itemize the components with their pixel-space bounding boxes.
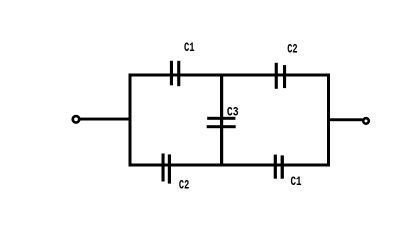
- capacitor C1 (bottom right): right plate: [281, 155, 284, 178]
- wire middle branch (C3 branch): [220, 74, 223, 167]
- svg-text:C3: C3: [227, 106, 239, 120]
- terminal left (input port): [73, 116, 80, 123]
- capacitor C2 (bottom left): right plate: [168, 154, 171, 183]
- capacitor C3 (middle): bottom plate: [207, 125, 236, 128]
- wire left terminal lead: [79, 118, 130, 121]
- wire right edge (output node): [327, 74, 330, 167]
- svg-text:C2: C2: [287, 43, 297, 57]
- capacitor C1 (bottom right): left plate: [274, 155, 277, 179]
- capacitor C1 (top left): left plate: [170, 61, 173, 86]
- wire bottom (node between C2 and C1 bottom): [129, 164, 331, 167]
- wire left edge (input node): [129, 74, 132, 167]
- capacitor C2 (top right): right plate: [283, 65, 286, 88]
- capacitor C2 (bottom left): left plate: [162, 154, 165, 182]
- svg-text:C1: C1: [184, 41, 195, 55]
- svg-text:C1: C1: [291, 175, 302, 189]
- capacitor C1 (top left): right plate: [177, 61, 180, 86]
- wire right terminal lead: [330, 118, 363, 121]
- terminal right (output port): [363, 118, 369, 124]
- wire top (node between C1 and C2 top): [129, 74, 331, 77]
- capacitor C3 (middle): top plate: [207, 117, 235, 120]
- svg-text:C2: C2: [179, 178, 189, 192]
- capacitor C2 (top right): left plate: [275, 63, 278, 89]
